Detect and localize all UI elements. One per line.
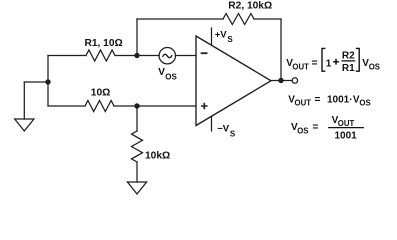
- source VOS tilde: [163, 54, 172, 57]
- pin +VS: [211, 28, 213, 45]
- resistor 10k ohm: [132, 131, 143, 162]
- node junction R1/source/feedback: [134, 53, 139, 58]
- wire left vertical: [47, 56, 49, 107]
- equation 3: VOS = VOUT / 1001: [291, 115, 364, 142]
- wire output: [271, 80, 292, 82]
- svg-text:OS: OS: [165, 73, 177, 82]
- op-amp U1: [196, 36, 271, 126]
- equation 2: VOUT = 1001 VOS: [288, 94, 370, 107]
- label +VS: [215, 30, 234, 44]
- svg-text:10Ω: 10Ω: [91, 88, 111, 99]
- wire row2 left: [48, 105, 85, 107]
- svg-text:1001·: 1001·: [327, 94, 353, 105]
- svg-text:1001: 1001: [335, 130, 358, 141]
- svg-text:OS: OS: [359, 99, 370, 108]
- wire row2 to noninverting input: [114, 105, 196, 107]
- svg-text:OUT: OUT: [292, 62, 309, 71]
- resistor 10 ohm: [85, 101, 114, 112]
- node row2 junction: [134, 103, 139, 108]
- wire feedback right vertical: [280, 19, 282, 81]
- svg-text:OS: OS: [297, 126, 308, 135]
- wire ground stub vertical: [23, 82, 25, 119]
- svg-text:R1: R1: [342, 63, 355, 74]
- svg-text:10kΩ: 10kΩ: [145, 151, 170, 162]
- resistor R2: [223, 14, 254, 25]
- ground bottom: [127, 182, 146, 194]
- node output: [278, 78, 283, 83]
- svg-text:OS: OS: [369, 62, 380, 71]
- pin -VS: [211, 117, 213, 131]
- svg-text:=: =: [313, 122, 319, 133]
- svg-text:=: =: [312, 58, 318, 69]
- node left: [45, 79, 50, 84]
- wire row1 left: [48, 55, 86, 57]
- output terminal open circle: [292, 78, 297, 83]
- wire top left segment: [137, 18, 223, 20]
- wire 10k bottom lead: [136, 162, 138, 182]
- source VOS circle: [159, 48, 175, 64]
- svg-text:+V: +V: [215, 30, 228, 41]
- svg-text:S: S: [227, 35, 233, 44]
- svg-text:=: =: [315, 94, 321, 105]
- label VOS source: [158, 67, 177, 81]
- wire 10k top lead: [136, 106, 138, 131]
- svg-text:S: S: [230, 130, 236, 139]
- wire top right segment: [254, 18, 281, 20]
- svg-text:R2, 10kΩ: R2, 10kΩ: [228, 1, 272, 12]
- ground left: [15, 119, 34, 131]
- svg-text:R2: R2: [342, 51, 355, 62]
- wire feedback left vertical: [136, 19, 138, 56]
- op-amp plus sign: [202, 104, 207, 109]
- svg-text:OUT: OUT: [295, 99, 312, 108]
- resistor R1: [86, 50, 115, 61]
- op-amp minus sign: [202, 52, 207, 54]
- wire source to inverting input: [176, 55, 197, 57]
- svg-text:R1, 10Ω: R1, 10Ω: [85, 38, 123, 49]
- svg-text:−V: −V: [217, 123, 230, 134]
- equation 1: VOUT = [1 + R2/R1] VOS: [286, 48, 380, 74]
- svg-text:V: V: [158, 67, 165, 78]
- svg-text:OUT: OUT: [338, 119, 355, 128]
- wire R1 to source: [115, 55, 159, 57]
- label -VS: [217, 123, 236, 138]
- wire ground stub horizontal: [24, 81, 48, 83]
- svg-text:1: 1: [326, 58, 332, 69]
